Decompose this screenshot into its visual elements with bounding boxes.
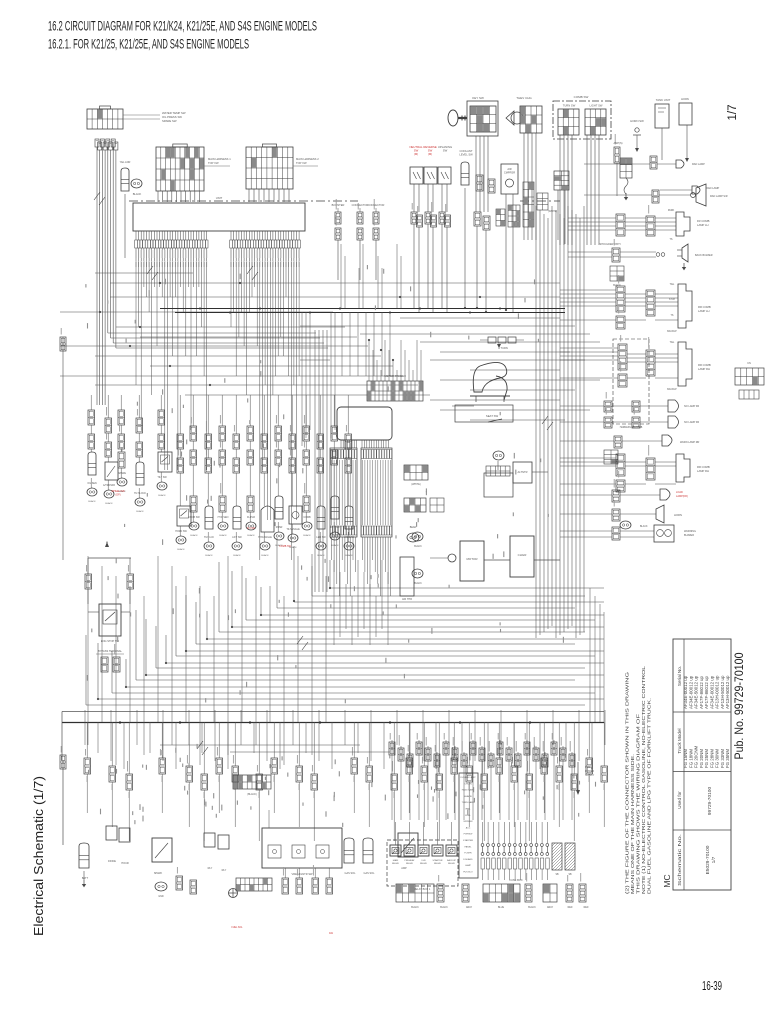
svg-text:CHGIN: CHGIN: [464, 783, 471, 785]
svg-text:BLACK: BLACK: [158, 494, 166, 497]
svg-text:MOTOR: MOTOR: [466, 557, 478, 561]
svg-text:Used for: Used for: [677, 791, 682, 809]
svg-text:ENG STOP SW: ENG STOP SW: [101, 639, 120, 643]
svg-text:SB: SB: [568, 874, 572, 876]
svg-text:LIFT SW: LIFT SW: [232, 536, 242, 539]
svg-text:COOLANT: COOLANT: [460, 149, 473, 153]
svg-text:SHOULDER PATH: SHOULDER PATH: [600, 243, 621, 246]
svg-text:RR COMB: RR COMB: [698, 305, 711, 309]
svg-text:CMPRSR: CMPRSR: [504, 170, 515, 174]
svg-text:PREHEAT: PREHEAT: [404, 859, 415, 862]
svg-text:PWRSW: PWRSW: [464, 834, 474, 836]
svg-text:TANK UNIT: TANK UNIT: [656, 98, 671, 102]
svg-text:BLACK: BLACK: [105, 502, 113, 505]
svg-text:TILT SW: TILT SW: [157, 476, 167, 479]
svg-text:FR COMB: FR COMB: [697, 219, 710, 223]
svg-text:BUZZER: BUZZER: [684, 534, 694, 537]
svg-text:FLSHR: FLSHR: [464, 853, 472, 855]
svg-text:WARNING: WARNING: [684, 530, 696, 533]
svg-text:AMP: AMP: [401, 867, 407, 870]
svg-text:RELAY: RELAY: [434, 862, 442, 865]
svg-text:FGUARD: FGUARD: [463, 858, 473, 861]
svg-text:BATT: BATT: [82, 877, 89, 880]
svg-text:FUSE BOX: FUSE BOX: [509, 878, 522, 882]
svg-text:BLACK: BLACK: [640, 525, 648, 528]
svg-text:Pub. No. 99729-70100: Pub. No. 99729-70100: [734, 653, 746, 760]
svg-text:CN: CN: [747, 362, 751, 365]
svg-text:RAD LAMP: RAD LAMP: [706, 186, 720, 190]
svg-text:STARTER: STARTER: [432, 859, 442, 862]
svg-text:GAS SOL: GAS SOL: [364, 872, 376, 875]
svg-text:MAIN HARNESS 2: MAIN HARNESS 2: [296, 157, 319, 161]
svg-text:WIPRSW: WIPRSW: [463, 821, 473, 823]
svg-text:NO LAMP FR: NO LAMP FR: [684, 421, 699, 424]
svg-text:BLACK: BLACK: [317, 554, 325, 557]
svg-text:IGN: IGN: [422, 860, 426, 862]
svg-text:FUEL SOL: FUEL SOL: [231, 927, 243, 929]
svg-text:FL PLR: FL PLR: [247, 516, 255, 519]
svg-text:OIL SEN: OIL SEN: [87, 482, 97, 485]
svg-text:BLACK: BLACK: [414, 582, 422, 585]
svg-text:(M): (M): [428, 152, 432, 156]
svg-text:16-39: 16-39: [702, 979, 722, 993]
svg-text:HYD SEN: HYD SEN: [218, 516, 229, 519]
svg-text:GRAY: GRAY: [466, 906, 473, 909]
svg-text:COMB SW: COMB SW: [279, 545, 291, 548]
svg-text:BLACK: BLACK: [190, 534, 198, 537]
svg-text:TAIL: TAIL: [670, 283, 675, 286]
svg-text:HORN SW: HORN SW: [175, 530, 187, 533]
svg-text:E5029-70100: E5029-70100: [705, 845, 711, 874]
svg-text:HORN: HORN: [681, 97, 689, 101]
svg-text:FUEL: FUEL: [465, 815, 471, 817]
svg-text:BLACK: BLACK: [88, 500, 96, 503]
svg-text:STARTER: STARTER: [463, 839, 473, 842]
svg-text:RELAY: RELAY: [406, 862, 414, 865]
svg-text:BLACK: BLACK: [133, 192, 142, 196]
svg-text:MC: MC: [662, 874, 672, 887]
svg-text:LAMP(FR): LAMP(FR): [676, 495, 688, 498]
svg-text:BLACK: BLACK: [177, 548, 185, 551]
svg-text:BLACK: BLACK: [247, 534, 255, 537]
svg-text:SHAPID: SHAPID: [464, 795, 473, 798]
svg-text:BACKUP: BACKUP: [667, 388, 677, 391]
svg-text:TILT ANGLE: TILT ANGLE: [286, 528, 300, 531]
svg-text:HARNESS RR COMB: HARNESS RR COMB: [620, 426, 643, 429]
svg-text:TILT LCK: TILT LCK: [204, 536, 214, 539]
svg-text:BLACK: BLACK: [219, 534, 227, 537]
svg-text:HYD: HYD: [585, 766, 590, 769]
svg-text:BLACK: BLACK: [261, 554, 269, 557]
svg-text:COMB: COMB: [303, 516, 311, 519]
svg-text:BLACK: BLACK: [440, 906, 448, 909]
svg-text:TURN SW: TURN SW: [563, 104, 576, 108]
svg-text:SPARK: SPARK: [154, 872, 163, 875]
svg-text:FUS BLO: FUS BLO: [463, 872, 473, 874]
svg-text:BLACK: BLACK: [528, 906, 536, 909]
svg-text:LAMP: LAMP: [465, 864, 471, 867]
svg-text:TOP VW: TOP VW: [208, 161, 219, 165]
svg-text:COMB SW: COMB SW: [574, 95, 589, 99]
svg-text:LAMP RH: LAMP RH: [698, 367, 710, 371]
svg-text:BLACK: BLACK: [233, 554, 241, 557]
svg-text:RELAY: RELAY: [448, 862, 456, 865]
svg-text:GAS SOL: GAS SOL: [345, 872, 357, 875]
svg-text:ALTNTR: ALTNTR: [518, 470, 528, 474]
svg-text:Electrical Schematic (1/7): Electrical Schematic (1/7): [31, 776, 46, 936]
svg-text:BLACK: BLACK: [205, 554, 213, 557]
svg-text:RR COMB: RR COMB: [698, 363, 711, 367]
svg-text:(2) THE FIGURE OF THE CONNECT: (2) THE FIGURE OF THE CONNECTOR SHOWN IN…: [625, 671, 630, 894]
svg-text:FUSBLE LAMP: FUSBLE LAMP: [460, 776, 476, 779]
svg-text:RED: RED: [584, 907, 589, 909]
svg-text:SNSR: SNSR: [276, 526, 283, 529]
svg-text:BACKUP: BACKUP: [667, 330, 677, 333]
svg-text:BLACK: BLACK: [303, 534, 311, 537]
svg-text:FL PLR: FL PLR: [247, 527, 255, 530]
svg-text:Serial No.: Serial No.: [677, 666, 682, 686]
svg-text:LAMP LH: LAMP LH: [698, 309, 710, 313]
svg-text:LIGHT SW: LIGHT SW: [590, 104, 603, 108]
svg-text:TILT LOCK: TILT LOCK: [134, 492, 146, 495]
svg-text:SEAT SW: SEAT SW: [486, 414, 499, 418]
svg-text:BLACK: BLACK: [136, 510, 144, 513]
svg-text:MAIN: MAIN: [393, 859, 399, 862]
svg-text:GND: GND: [158, 895, 164, 898]
svg-text:KNOB SW: KNOB SW: [188, 516, 200, 519]
svg-text:RAD LAMP S/R: RAD LAMP S/R: [710, 195, 728, 198]
svg-text:BEAD: BEAD: [410, 526, 417, 529]
svg-text:BLACK: BLACK: [331, 544, 339, 547]
svg-text:IGN: IGN: [329, 933, 333, 935]
svg-text:GRAY: GRAY: [547, 906, 554, 909]
svg-text:AIR HTR: AIR HTR: [402, 598, 412, 601]
svg-text:HORN SW: HORN SW: [630, 119, 644, 123]
svg-text:LIFT SW: LIFT SW: [330, 526, 340, 529]
svg-text:PANEL: PANEL: [464, 845, 472, 848]
svg-text:AMP(S): AMP(S): [613, 141, 622, 145]
svg-text:HOUR: HOUR: [121, 862, 129, 865]
svg-text:MAIN HARNESS 1: MAIN HARNESS 1: [208, 157, 231, 161]
svg-text:RLY: RLY: [222, 869, 227, 872]
svg-text:LED SW: LED SW: [316, 536, 326, 539]
svg-text:(M): (M): [414, 152, 418, 156]
svg-text:RELAY: RELAY: [420, 862, 428, 865]
svg-text:A/TRNSFR: A/TRNSFR: [103, 484, 115, 487]
svg-text:SPARE SW: SPARE SW: [162, 119, 177, 123]
svg-text:CONNECTOR: CONNECTOR: [352, 203, 369, 207]
svg-text:TAIL: TAIL: [670, 341, 675, 344]
svg-text:AF13H-50012 up: AF13H-50012 up: [725, 675, 730, 709]
svg-text:THEV CHG: THEV CHG: [516, 96, 532, 100]
svg-text:RELAY BOX 1: RELAY BOX 1: [414, 887, 431, 891]
svg-text:SW: SW: [443, 149, 448, 153]
svg-text:VREG/IGNTR SW: VREG/IGNTR SW: [291, 872, 313, 876]
svg-text:1/7: 1/7: [711, 856, 717, 863]
svg-text:Truck Model: Truck Model: [677, 728, 682, 753]
svg-text:CONNECTOR: CONNECTOR: [368, 203, 385, 207]
svg-text:1/7: 1/7: [727, 105, 739, 121]
svg-text:TS: TS: [671, 315, 674, 317]
svg-text:Schematic No.: Schematic No.: [677, 834, 682, 886]
svg-text:RAIL: RAIL: [466, 808, 472, 811]
svg-text:SUPPLY: SUPPLY: [585, 774, 595, 777]
svg-text:AIR: AIR: [507, 167, 511, 171]
svg-text:RELAY: RELAY: [392, 862, 400, 865]
svg-text:(WHITE): (WHITE): [411, 483, 420, 486]
svg-text:NOTE (1) NO-ELECTRIC CONTROL: NOTE (1) NO-ELECTRIC CONTROL GASOLINE, N…: [641, 665, 646, 894]
svg-text:BLACK: BLACK: [411, 906, 419, 909]
svg-text:DUAL FUEL GASOLINE AND LPG TYP: DUAL FUEL GASOLINE AND LPG TYPE OF FORKL…: [647, 698, 652, 894]
svg-text:THIS DRAWING SHOWS THE: THIS DRAWING SHOWS THE WIRING DIAGRAM OF: [636, 714, 641, 894]
svg-text:BLACK: BLACK: [414, 545, 422, 548]
svg-text:TOP VW: TOP VW: [296, 161, 307, 165]
svg-text:YEL LDR: YEL LDR: [120, 160, 131, 164]
svg-text:ACC: ACC: [466, 826, 471, 829]
svg-text:BLACK: BLACK: [613, 284, 621, 287]
svg-text:LOAD: LOAD: [676, 491, 683, 494]
svg-text:HORN: HORN: [674, 513, 682, 517]
svg-text:DIODE: DIODE: [108, 860, 116, 863]
svg-text:A TURN: A TURN: [498, 346, 508, 350]
svg-text:FG 35NM: FG 35NM: [725, 749, 730, 768]
svg-text:16.2 CIRCUIT DIAGRAM FOR K21/K: 16.2 CIRCUIT DIAGRAM FOR K21/K24, K21/25…: [48, 19, 317, 34]
svg-text:TS: TS: [669, 238, 672, 241]
svg-text:SB: SB: [555, 874, 559, 876]
svg-text:HYD/ANGLE: HYD/ANGLE: [258, 536, 272, 539]
svg-text:BLUE: BLUE: [498, 907, 504, 909]
svg-text:POWER: POWER: [585, 770, 594, 773]
svg-text:CHGR: CHGR: [518, 553, 528, 557]
svg-text:BACK BUZZER: BACK BUZZER: [695, 254, 713, 257]
svg-text:BLACK: BLACK: [345, 554, 353, 557]
svg-text:(OP): (OP): [115, 493, 120, 496]
svg-text:KEY SW: KEY SW: [472, 96, 484, 100]
svg-text:UNLOAD: UNLOAD: [344, 536, 354, 539]
svg-text:NO LAMP FR: NO LAMP FR: [684, 405, 699, 408]
svg-text:(BLACK): (BLACK): [247, 793, 257, 796]
svg-text:16.2.1. FOR K21/25, K21/25E, A: 16.2.1. FOR K21/25, K21/25E, AND S4S ENG…: [48, 37, 249, 52]
svg-text:UNIT: UNIT: [216, 196, 223, 200]
svg-text:MEANS ONE OF THE MAIN HARNESS: MEANS ONE OF THE MAIN HARNESS SIDE.: [630, 754, 635, 894]
svg-text:LAMP RH: LAMP RH: [697, 469, 709, 473]
svg-text:RED: RED: [568, 907, 573, 909]
svg-text:A: A: [106, 540, 108, 544]
svg-text:BACKUP: BACKUP: [447, 859, 457, 862]
svg-text:RLY: RLY: [208, 867, 213, 870]
svg-text:PARK: PARK: [668, 209, 675, 212]
svg-text:99729-70100: 99729-70100: [707, 787, 713, 816]
svg-text:RAD LAMP: RAD LAMP: [692, 163, 705, 166]
svg-text:SPARE: SPARE: [118, 472, 126, 475]
svg-text:RR COMB: RR COMB: [697, 465, 710, 469]
svg-text:LEVEL SW: LEVEL SW: [459, 152, 473, 156]
svg-text:BOOSTER: BOOSTER: [332, 203, 345, 207]
svg-text:STOP: STOP: [669, 299, 676, 301]
svg-text:WARN LAMP RR: WARN LAMP RR: [680, 441, 700, 444]
svg-text:LAMP LH: LAMP LH: [697, 223, 709, 227]
svg-text:BYPASS TERMINAL: BYPASS TERMINAL: [98, 649, 123, 653]
